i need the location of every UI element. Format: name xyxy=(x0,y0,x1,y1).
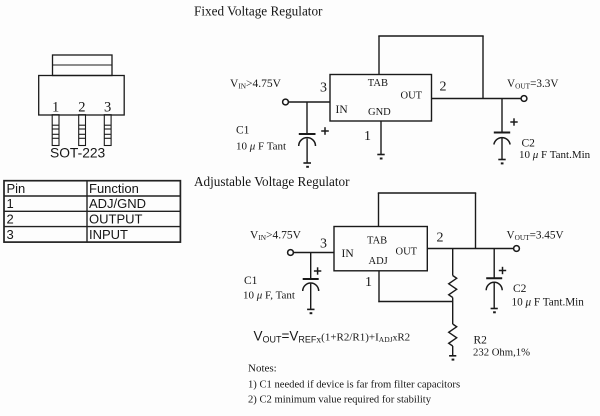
svg-text:INPUT: INPUT xyxy=(89,227,128,242)
svg-text:TAB: TAB xyxy=(367,236,387,247)
svg-text:232 Ohm,1%: 232 Ohm,1% xyxy=(473,346,530,358)
C2 adj curved plate xyxy=(486,282,502,290)
svg-text:OUTPUT: OUTPUT xyxy=(89,212,143,227)
wire: U2 TAB lead up xyxy=(378,193,380,227)
wire: R1 top lead xyxy=(452,249,454,276)
SOT-223 package body xyxy=(39,76,125,116)
svg-text:3: 3 xyxy=(104,99,111,115)
C2 plus sign xyxy=(510,118,517,125)
table row line 1 xyxy=(4,195,180,197)
svg-text:VOUT=3.3V: VOUT=3.3V xyxy=(507,78,558,91)
svg-text:Pin: Pin xyxy=(7,181,26,196)
svg-text:TAB: TAB xyxy=(368,78,388,89)
C2 curved plate xyxy=(494,138,510,145)
svg-text:2: 2 xyxy=(437,231,444,246)
svg-text:VOUT=VREFx(1+R2/R1)+IADJxR2: VOUT=VREFx(1+R2/R1)+IADJxR2 xyxy=(254,329,411,346)
table column divider xyxy=(86,181,88,242)
capacitor C1 (fixed) top lead xyxy=(306,102,308,133)
svg-text:1) C1 needed if device is far: 1) C1 needed if device is far from filte… xyxy=(248,379,460,390)
table row line 2 xyxy=(4,210,180,212)
terminal: VIN (fixed) xyxy=(283,99,289,105)
ground (C2 fixed) xyxy=(498,160,505,164)
capacitor C1 (adj) top lead xyxy=(310,253,312,279)
wire: U1 TAB lead up xyxy=(378,36,380,75)
ground (C2 adj) xyxy=(491,309,498,313)
wire: U2 tab top horizontal xyxy=(378,192,476,194)
C1 top plate xyxy=(299,133,316,135)
svg-text:10 μ F Tant.Min: 10 μ F Tant.Min xyxy=(519,149,591,161)
package lead 1 xyxy=(52,115,59,146)
pin function table frame xyxy=(4,181,180,242)
SOT-223 tab inner line xyxy=(53,64,113,66)
package lead 3 xyxy=(104,115,111,146)
wire: R1 to R2 xyxy=(452,298,454,325)
capacitor C2 (adj) top lead xyxy=(493,249,495,278)
SOT-223 package tab xyxy=(53,55,113,76)
svg-text:ADJ: ADJ xyxy=(369,256,388,267)
table row line 3 xyxy=(4,226,180,228)
svg-text:2) C2 minimum value required f: 2) C2 minimum value required for stabili… xyxy=(248,394,432,405)
svg-text:C1: C1 xyxy=(236,125,250,137)
svg-text:IN: IN xyxy=(342,248,355,260)
svg-text:OUT: OUT xyxy=(401,90,423,101)
svg-text:2: 2 xyxy=(78,99,85,115)
regulator U1 (fixed) body xyxy=(330,75,432,122)
svg-text:10 μ F, Tant: 10 μ F, Tant xyxy=(243,290,295,302)
svg-text:SOT-223: SOT-223 xyxy=(50,146,106,161)
wire: R2 bottom lead xyxy=(452,346,454,355)
wire: U1 tab return drop to output xyxy=(482,36,484,99)
C2 bottom lead xyxy=(501,137,503,159)
svg-text:C2: C2 xyxy=(513,283,527,295)
wire: U1 output xyxy=(432,98,522,100)
terminal: VOUT (fixed) xyxy=(521,96,527,102)
svg-text:1: 1 xyxy=(52,99,59,115)
ground (U1 GND pin) xyxy=(377,155,384,159)
svg-text:C2: C2 xyxy=(522,137,536,149)
C2 top plate xyxy=(494,132,510,134)
svg-text:ADJ/GND: ADJ/GND xyxy=(89,196,146,211)
svg-text:VIN>4.75V: VIN>4.75V xyxy=(250,229,302,242)
resistor R2 xyxy=(449,324,457,346)
capacitor C2 (fixed) top lead xyxy=(501,99,503,132)
svg-text:C1: C1 xyxy=(244,275,258,287)
wire: U1 GND lead down xyxy=(380,121,382,154)
svg-text:OUT: OUT xyxy=(396,246,418,257)
C1 adj bottom lead xyxy=(310,284,312,309)
svg-text:2: 2 xyxy=(7,212,14,227)
svg-text:3: 3 xyxy=(320,237,327,252)
terminal: VIN (adjustable) xyxy=(288,250,294,256)
svg-text:Adjustable Voltage Regulator: Adjustable Voltage Regulator xyxy=(194,174,350,189)
svg-text:1: 1 xyxy=(7,196,14,211)
ground (C1 fixed) xyxy=(303,163,311,167)
C1 adj curved plate xyxy=(303,283,319,291)
svg-text:Fixed Voltage Regulator: Fixed Voltage Regulator xyxy=(194,4,323,19)
C2 adj top plate xyxy=(486,277,502,279)
C1 plus sign xyxy=(321,127,329,135)
C2 adj bottom lead xyxy=(493,283,495,308)
svg-text:10 μ F Tant.Min: 10 μ F Tant.Min xyxy=(512,297,585,309)
svg-text:Notes:: Notes: xyxy=(248,363,277,375)
wire: U2 ADJ lead down xyxy=(378,271,380,302)
svg-text:3: 3 xyxy=(7,227,14,242)
wire: U1 tab top horizontal xyxy=(378,35,483,37)
svg-text:3: 3 xyxy=(320,81,327,96)
wire: U1 input xyxy=(288,101,330,103)
resistor R1 xyxy=(449,276,457,298)
wire: U2 input xyxy=(293,252,334,254)
svg-text:10 μ F Tant: 10 μ F Tant xyxy=(236,141,286,153)
svg-text:R2: R2 xyxy=(474,335,488,347)
svg-text:IN: IN xyxy=(336,104,349,116)
terminal: VOUT (adjustable) xyxy=(514,246,520,252)
svg-text:VIN>4.75V: VIN>4.75V xyxy=(230,78,282,91)
C1 curved plate xyxy=(299,138,316,146)
C1 adj top plate xyxy=(303,278,319,280)
svg-text:1: 1 xyxy=(365,275,372,290)
svg-text:VOUT=3.45V: VOUT=3.45V xyxy=(507,229,564,242)
C1 bottom lead xyxy=(306,139,308,163)
svg-text:GND: GND xyxy=(368,107,391,118)
svg-text:1: 1 xyxy=(364,129,371,144)
regulator U2 (adjustable) body xyxy=(334,227,427,271)
C2 adj plus sign xyxy=(499,267,506,274)
package lead 2 xyxy=(79,115,86,146)
wire: U2 output xyxy=(427,248,514,250)
wire: U2 tab return drop to output xyxy=(475,193,477,249)
ground (C1 adj) xyxy=(307,309,314,313)
ground (R2) xyxy=(449,356,456,360)
svg-text:2: 2 xyxy=(440,80,447,95)
svg-text:Function: Function xyxy=(89,181,139,196)
C1 adj plus sign xyxy=(314,267,321,274)
wire: ADJ to resistor junction xyxy=(378,301,452,303)
